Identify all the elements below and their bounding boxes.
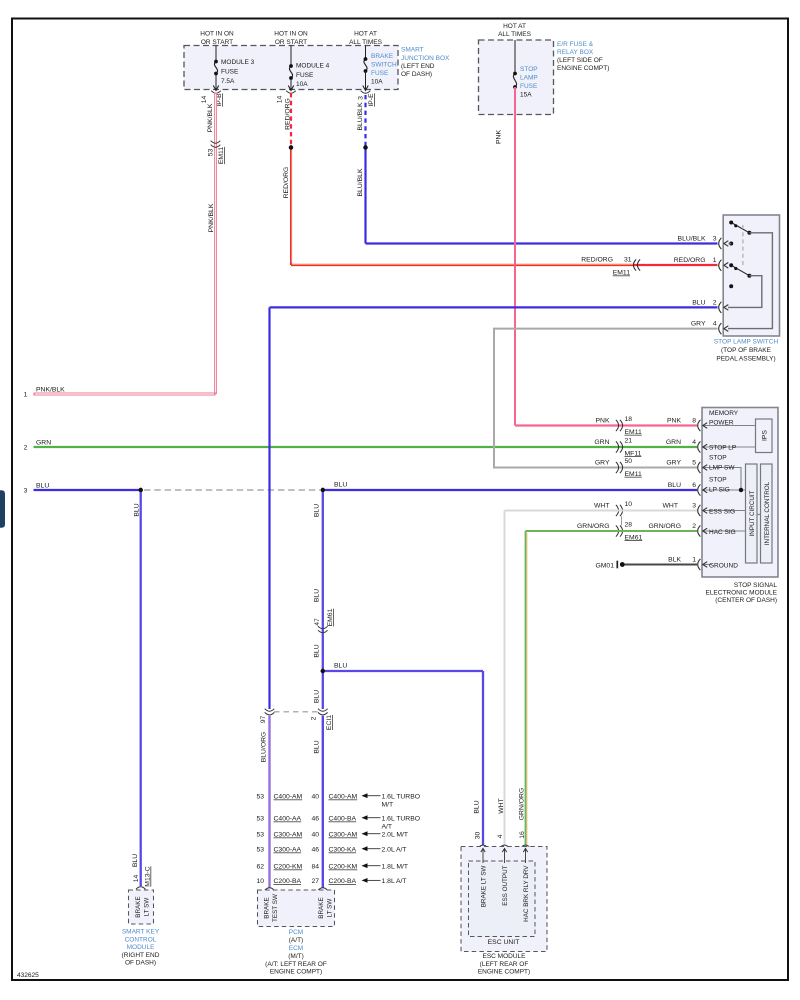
svg-text:BLU: BLU [314,740,321,753]
svg-text:(A/T): (A/T) [289,937,303,944]
svg-text:BLU: BLU [314,690,321,703]
svg-text:GRN/ORG: GRN/ORG [519,788,526,820]
svg-text:53: 53 [208,149,215,157]
svg-text:3: 3 [358,96,365,100]
svg-text:STOP: STOP [709,455,727,462]
svg-text:STOP LAMP SWITCH: STOP LAMP SWITCH [714,339,779,346]
svg-text:14: 14 [277,96,284,104]
svg-text:HAC BRK RLY DRV: HAC BRK RLY DRV [523,865,530,922]
svg-text:GRN/ORG: GRN/ORG [577,523,609,530]
svg-text:PNK/BLK: PNK/BLK [36,387,65,394]
svg-text:JUNCTION BOX: JUNCTION BOX [401,55,450,62]
svg-text:(M/T): (M/T) [288,953,304,960]
svg-text:(TOP OF BRAKE: (TOP OF BRAKE [721,347,772,354]
svg-text:ECI1: ECI1 [326,715,333,730]
svg-text:(CENTER OF DASH): (CENTER OF DASH) [715,597,777,604]
svg-text:4: 4 [713,321,717,328]
svg-text:ELECTRONIC MODULE: ELECTRONIC MODULE [705,590,777,597]
svg-text:M/T: M/T [382,801,394,808]
svg-text:TEST SW: TEST SW [272,894,279,922]
svg-text:FUSE: FUSE [221,69,239,76]
svg-text:2: 2 [311,716,318,720]
svg-text:HOT AT: HOT AT [354,31,377,38]
svg-text:WHT: WHT [498,798,505,813]
svg-text:BRAKE: BRAKE [371,53,394,60]
svg-text:27: 27 [311,878,319,885]
svg-text:WHT: WHT [663,503,678,510]
svg-text:28: 28 [625,522,633,529]
svg-text:46: 46 [311,847,319,854]
svg-text:47: 47 [314,618,321,626]
svg-text:C400-AM: C400-AM [274,794,303,801]
svg-text:C400-AA: C400-AA [274,816,302,823]
svg-text:PNK: PNK [496,130,503,144]
svg-text:ENGINE COMPT): ENGINE COMPT) [478,968,530,975]
svg-text:BLU: BLU [668,482,681,489]
svg-text:BLK: BLK [668,557,681,564]
svg-text:2: 2 [713,300,717,307]
svg-text:10A: 10A [296,81,308,88]
svg-text:OF DASH): OF DASH) [401,71,432,78]
svg-text:1.6L TURBO: 1.6L TURBO [382,794,421,801]
svg-text:RED/ORG: RED/ORG [283,167,290,199]
svg-text:40: 40 [311,794,319,801]
svg-text:ESC UNIT: ESC UNIT [488,939,520,946]
svg-text:ENGINE COMPT): ENGINE COMPT) [270,969,322,976]
svg-text:(LEFT REAR OF: (LEFT REAR OF [480,961,529,968]
svg-text:BRAKE LT SW: BRAKE LT SW [481,865,488,907]
svg-text:(A/T: LEFT REAR OF: (A/T: LEFT REAR OF [265,961,327,968]
svg-text:BLU/BLK: BLU/BLK [357,102,364,130]
svg-text:(RIGHT END: (RIGHT END [122,952,160,959]
svg-text:LMP SW: LMP SW [709,465,735,472]
svg-text:432625: 432625 [17,972,39,979]
svg-text:GRN: GRN [594,439,609,446]
svg-text:C300-AM: C300-AM [329,832,358,839]
svg-text:ESS OUTPUT: ESS OUTPUT [502,865,509,905]
svg-text:53: 53 [256,816,264,823]
svg-text:GRY: GRY [691,321,706,328]
svg-text:10: 10 [256,878,264,885]
svg-text:16: 16 [519,831,526,839]
svg-text:C400-BA: C400-BA [329,816,357,823]
svg-text:HOT AT: HOT AT [503,23,526,30]
svg-text:C300-AM: C300-AM [274,832,303,839]
svg-text:INPUT CIRCUIT: INPUT CIRCUIT [749,490,756,536]
svg-text:ALL TIMES: ALL TIMES [498,31,532,38]
svg-text:7.5A: 7.5A [221,78,235,85]
svg-text:RED/ORG: RED/ORG [285,98,292,130]
svg-text:C200-KM: C200-KM [329,864,358,871]
svg-text:HAC SIG: HAC SIG [709,529,736,536]
svg-text:PNK: PNK [667,418,681,425]
svg-text:STOP: STOP [520,66,538,73]
svg-text:HOT IN ON: HOT IN ON [200,31,234,38]
svg-text:31: 31 [624,257,632,264]
svg-text:10A: 10A [371,79,383,86]
svg-text:EM11: EM11 [625,429,642,436]
svg-text:STOP LP: STOP LP [709,445,736,452]
svg-text:18: 18 [625,416,633,423]
svg-text:FUSE: FUSE [371,70,389,77]
svg-text:BLU: BLU [314,589,321,602]
svg-text:1: 1 [24,392,28,399]
svg-text:IP-B: IP-B [216,93,223,107]
svg-text:3: 3 [24,488,28,495]
svg-text:53: 53 [256,794,264,801]
svg-text:A/T: A/T [382,823,393,830]
svg-text:1: 1 [713,257,717,264]
svg-text:BLU/BLK: BLU/BLK [678,236,706,243]
svg-text:BLU: BLU [474,800,481,813]
svg-text:C400-AM: C400-AM [329,794,358,801]
svg-text:(LEFT SIDE OF: (LEFT SIDE OF [557,57,603,64]
svg-text:OR START: OR START [201,39,233,46]
svg-text:53: 53 [256,847,264,854]
svg-text:ALL TIMES: ALL TIMES [349,39,383,46]
svg-text:50: 50 [625,458,633,465]
svg-text:SMART: SMART [401,47,424,54]
svg-text:PNK/BLK: PNK/BLK [207,103,214,132]
svg-text:ECM: ECM [289,945,303,952]
svg-text:EM11: EM11 [613,270,630,277]
svg-text:MODULE 4: MODULE 4 [296,63,330,70]
svg-text:4: 4 [692,439,696,446]
svg-text:C300-AA: C300-AA [274,847,302,854]
svg-text:BLU: BLU [334,663,347,670]
svg-text:30: 30 [475,832,482,840]
svg-text:3: 3 [692,503,696,510]
svg-text:GRN: GRN [666,439,681,446]
svg-text:ENGINE COMPT): ENGINE COMPT) [557,65,609,72]
svg-text:EM61: EM61 [327,608,334,626]
svg-text:E/R FUSE &: E/R FUSE & [557,41,594,48]
svg-text:BLU: BLU [314,644,321,657]
svg-text:2: 2 [24,445,28,452]
svg-text:BLU: BLU [36,483,49,490]
svg-text:14: 14 [133,875,140,883]
svg-text:1.6L TURBO: 1.6L TURBO [382,816,421,823]
svg-text:LT SW: LT SW [144,898,151,917]
svg-text:OF DASH): OF DASH) [125,960,156,967]
svg-text:62: 62 [256,864,264,871]
svg-text:6: 6 [692,482,696,489]
svg-text:CONTROL: CONTROL [125,936,157,943]
svg-text:10: 10 [625,501,633,508]
svg-text:BLU: BLU [132,854,139,867]
svg-text:INTERNAL CONTROL: INTERNAL CONTROL [764,481,771,545]
svg-text:POWER: POWER [709,419,734,426]
svg-text:40: 40 [311,832,319,839]
svg-text:53: 53 [256,832,264,839]
svg-text:C300-KA: C300-KA [329,847,357,854]
svg-text:BRAKE: BRAKE [264,897,271,918]
svg-text:C200-BA: C200-BA [329,878,357,885]
svg-text:MODULE: MODULE [127,944,155,951]
svg-text:GROUND: GROUND [709,563,738,570]
svg-text:STOP SIGNAL: STOP SIGNAL [734,582,777,589]
svg-text:EM61: EM61 [625,534,643,541]
svg-text:WHT: WHT [594,503,609,510]
svg-text:GRN/ORG: GRN/ORG [649,523,681,530]
svg-text:GRN: GRN [36,440,51,447]
svg-text:4: 4 [497,834,504,838]
svg-text:21: 21 [625,438,633,445]
svg-text:2: 2 [692,523,696,530]
svg-text:1.8L A/T: 1.8L A/T [382,878,407,885]
svg-text:PCM: PCM [289,929,303,936]
svg-text:2.0L A/T: 2.0L A/T [382,847,407,854]
svg-text:MEMORY: MEMORY [709,410,739,417]
svg-text:PEDAL ASSEMBLY): PEDAL ASSEMBLY) [716,356,775,363]
svg-text:SWITCH: SWITCH [371,62,397,69]
svg-text:GRY: GRY [666,460,681,467]
svg-text:BLU/ORG: BLU/ORG [261,732,268,763]
svg-text:IP-E: IP-E [368,93,375,107]
svg-text:GM01: GM01 [595,563,614,570]
svg-text:ESC MODULE: ESC MODULE [483,953,527,960]
svg-text:M13-C: M13-C [145,866,152,886]
svg-text:PNK: PNK [596,418,610,425]
svg-text:IPS: IPS [762,430,769,441]
svg-text:RED/ORG: RED/ORG [674,257,706,264]
svg-text:BLU/BLK: BLU/BLK [357,168,364,196]
svg-text:97: 97 [260,716,267,724]
svg-text:EM11: EM11 [625,471,642,478]
svg-text:46: 46 [311,816,319,823]
svg-text:BRAKE: BRAKE [135,896,142,917]
svg-text:8: 8 [692,418,696,425]
svg-text:3: 3 [713,236,717,243]
svg-text:OR START: OR START [275,39,307,46]
svg-text:15A: 15A [520,92,532,99]
svg-text:MF11: MF11 [625,450,642,457]
svg-text:1.8L M/T: 1.8L M/T [382,864,409,871]
svg-text:5: 5 [692,460,696,467]
svg-text:(LEFT END: (LEFT END [401,63,435,70]
svg-text:BLU: BLU [134,503,141,516]
svg-text:SMART KEY: SMART KEY [122,929,160,936]
svg-text:84: 84 [311,864,319,871]
svg-text:BLU: BLU [314,504,321,517]
svg-text:MODULE 3: MODULE 3 [221,59,255,66]
svg-text:BRAKE: BRAKE [318,897,325,918]
svg-text:14: 14 [201,96,208,104]
svg-text:EM11: EM11 [218,147,225,164]
svg-text:ESS SIG: ESS SIG [709,509,735,516]
svg-text:LT SW: LT SW [327,899,334,918]
svg-text:STOP: STOP [709,477,727,484]
svg-text:FUSE: FUSE [520,83,538,90]
svg-text:RED/ORG: RED/ORG [581,257,613,264]
svg-text:BLU: BLU [334,482,347,489]
svg-text:LP SIG: LP SIG [709,487,730,494]
svg-text:FUSE: FUSE [296,72,314,79]
svg-text:RELAY BOX: RELAY BOX [557,49,594,56]
svg-text:C200-BA: C200-BA [274,878,302,885]
svg-text:1: 1 [692,557,696,564]
svg-text:PNK/BLK: PNK/BLK [208,203,215,232]
svg-text:BLU: BLU [692,300,705,307]
svg-text:C200-KM: C200-KM [274,864,303,871]
svg-text:HOT IN ON: HOT IN ON [274,31,308,38]
svg-text:2.0L M/T: 2.0L M/T [382,832,409,839]
svg-text:LAMP: LAMP [520,75,538,82]
svg-text:GRY: GRY [595,460,610,467]
